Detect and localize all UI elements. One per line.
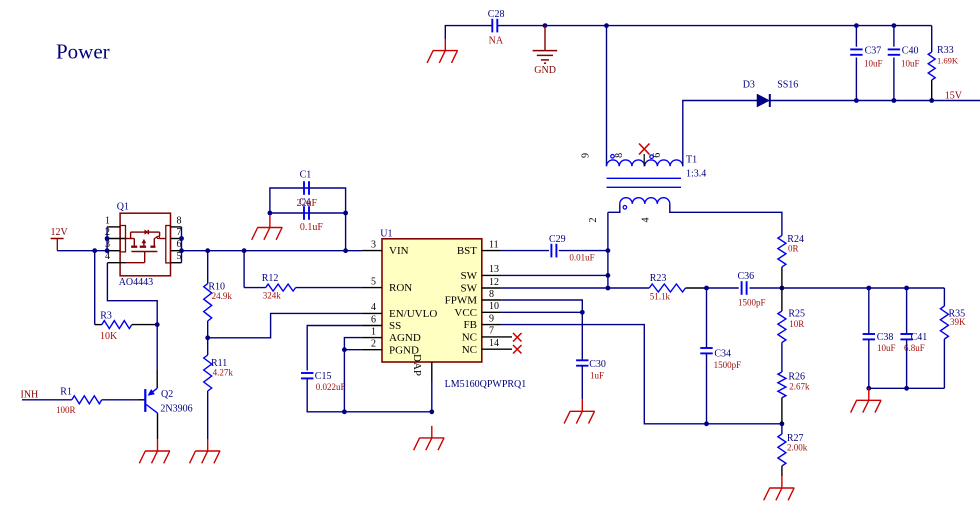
resistor R11 bbox=[204, 338, 234, 439]
resistor R26 bbox=[778, 343, 810, 424]
no-connect pin14 bbox=[513, 345, 522, 354]
wire VCC bbox=[502, 311, 583, 313]
ground DAP bbox=[414, 426, 445, 450]
wire EN net bbox=[208, 313, 362, 337]
svg-text:C1: C1 bbox=[300, 170, 312, 181]
svg-text:12V: 12V bbox=[51, 227, 69, 238]
wire C29-SWbus bbox=[559, 250, 608, 252]
node C4 right bbox=[343, 248, 348, 253]
resistor R12 bbox=[244, 273, 362, 300]
pin 1 Q1 bbox=[105, 215, 120, 227]
svg-text:R23: R23 bbox=[650, 273, 667, 284]
svg-text:10uF: 10uF bbox=[877, 343, 896, 353]
node AGND rail bbox=[342, 409, 347, 414]
node C4 right2 bbox=[343, 211, 348, 216]
svg-text:1: 1 bbox=[105, 215, 110, 226]
wire 12V rail bbox=[57, 250, 107, 252]
op-amp U1 LM5160QPWPRQ1 bbox=[362, 229, 526, 391]
capacitor C37 bbox=[850, 26, 882, 101]
capacitor C40 bbox=[888, 26, 920, 101]
wire DAP stub bbox=[431, 362, 433, 412]
svg-text:9: 9 bbox=[581, 153, 592, 158]
wire C28 left bbox=[445, 26, 492, 39]
capacitor C28 bbox=[488, 9, 505, 46]
capacitor C38 bbox=[863, 288, 896, 388]
node C40 top bbox=[892, 23, 897, 28]
svg-text:D3: D3 bbox=[743, 79, 755, 90]
resistor R35 bbox=[940, 288, 966, 388]
resistor R24 bbox=[778, 234, 804, 288]
node R3-Q2 bbox=[155, 322, 160, 327]
svg-text:R3: R3 bbox=[100, 311, 112, 322]
wire Q1 left bus bbox=[106, 227, 108, 251]
svg-text:39K: 39K bbox=[950, 317, 966, 327]
transistor Q1 bbox=[117, 202, 171, 289]
ground C30 bbox=[564, 399, 595, 423]
wire VIN rail bbox=[182, 250, 362, 252]
resistor R3 bbox=[95, 311, 158, 342]
node C34 top bbox=[704, 286, 709, 291]
node GND tap bbox=[543, 23, 548, 28]
wire Q1 right bus bbox=[181, 227, 183, 263]
wire T1 pri left bbox=[606, 26, 608, 167]
svg-text:2.00k: 2.00k bbox=[787, 442, 808, 452]
svg-text:SW: SW bbox=[461, 270, 478, 282]
svg-text:0.022uF: 0.022uF bbox=[316, 382, 346, 392]
svg-text:10uF: 10uF bbox=[864, 58, 883, 68]
resistor R23 bbox=[608, 273, 707, 301]
svg-text:100R: 100R bbox=[56, 405, 76, 415]
node SW13 bbox=[606, 273, 611, 278]
transistor Q2 bbox=[145, 325, 192, 439]
resistor R27 bbox=[778, 424, 808, 476]
wire FB net bbox=[502, 325, 782, 424]
ground Q2 bbox=[139, 439, 170, 463]
no-connect pin7 bbox=[513, 333, 522, 342]
svg-text:24.9k: 24.9k bbox=[212, 291, 233, 301]
resistor R1 bbox=[56, 386, 145, 415]
svg-text:Power: Power bbox=[56, 40, 110, 64]
svg-text:2N3906: 2N3906 bbox=[160, 403, 192, 414]
node EN node bbox=[205, 335, 210, 340]
svg-text:SS16: SS16 bbox=[777, 79, 798, 90]
wire out bottom rail bbox=[869, 387, 945, 389]
node Q1 pin7 bbox=[179, 236, 184, 241]
node C38 bottom bbox=[866, 386, 871, 391]
node R24 bottom bbox=[780, 286, 785, 291]
svg-text:1uF: 1uF bbox=[590, 371, 604, 381]
svg-text:PGND: PGND bbox=[389, 344, 419, 356]
node Q1 pin2 bbox=[105, 236, 110, 241]
wire sec right bbox=[670, 204, 782, 236]
node SW12 bbox=[606, 286, 611, 291]
svg-text:C38: C38 bbox=[877, 332, 894, 343]
pin 3 Q1 bbox=[105, 239, 120, 251]
svg-text:T1: T1 bbox=[686, 154, 697, 165]
svg-text:13: 13 bbox=[489, 264, 499, 275]
svg-text:10K: 10K bbox=[100, 331, 118, 342]
svg-text:C29: C29 bbox=[549, 234, 566, 245]
node R12 top bbox=[242, 248, 247, 253]
svg-text:DAP: DAP bbox=[411, 354, 423, 376]
wire AGND net bbox=[344, 338, 362, 412]
svg-text:11: 11 bbox=[489, 239, 499, 250]
svg-text:AGND: AGND bbox=[389, 332, 421, 344]
node C41 bottom bbox=[904, 386, 909, 391]
wire SW13 bbox=[502, 274, 608, 276]
node C37 top bbox=[854, 23, 859, 28]
svg-text:C37: C37 bbox=[865, 45, 882, 56]
svg-text:SS: SS bbox=[389, 320, 401, 332]
svg-text:51.1k: 51.1k bbox=[650, 291, 671, 301]
svg-text:2: 2 bbox=[588, 218, 599, 223]
svg-text:NC: NC bbox=[462, 332, 477, 344]
svg-text:VCC: VCC bbox=[454, 307, 477, 319]
svg-text:12: 12 bbox=[489, 277, 499, 288]
svg-text:7: 7 bbox=[489, 326, 494, 337]
wire C15 bottom bbox=[307, 378, 432, 411]
svg-text:Q2: Q2 bbox=[161, 389, 173, 400]
svg-text:6: 6 bbox=[652, 153, 663, 158]
svg-text:6: 6 bbox=[371, 314, 376, 325]
svg-text:NA: NA bbox=[489, 35, 504, 46]
capacitor C36 bbox=[707, 271, 782, 308]
svg-text:10: 10 bbox=[489, 301, 499, 312]
svg-text:8: 8 bbox=[177, 215, 182, 226]
node C41 top bbox=[904, 286, 909, 291]
svg-text:1500pF: 1500pF bbox=[738, 298, 766, 308]
svg-text:NC: NC bbox=[462, 344, 477, 356]
wire R3 riser bbox=[94, 251, 96, 325]
node C37 bottom bbox=[854, 98, 859, 103]
node SW-C29 bbox=[606, 248, 611, 253]
svg-text:8: 8 bbox=[489, 289, 494, 300]
svg-text:INH: INH bbox=[21, 389, 39, 400]
node PGND bbox=[342, 347, 347, 352]
node Q1 pin6 bbox=[179, 248, 184, 253]
wire C30 bottom bbox=[581, 366, 583, 400]
svg-text:4.27k: 4.27k bbox=[213, 368, 234, 378]
ground C1C4 bbox=[252, 216, 283, 240]
svg-text:2.67k: 2.67k bbox=[789, 381, 810, 391]
wire gate drop bbox=[107, 263, 157, 325]
svg-text:LM5160QPWPRQ1: LM5160QPWPRQ1 bbox=[445, 379, 527, 390]
svg-text:FPWM: FPWM bbox=[445, 295, 478, 307]
svg-text:C30: C30 bbox=[589, 359, 606, 370]
svg-text:3: 3 bbox=[371, 239, 376, 250]
node C40 bottom bbox=[892, 98, 897, 103]
svg-text:10R: 10R bbox=[789, 319, 804, 329]
node C4 left bbox=[268, 211, 273, 216]
node T1 pri tap bbox=[604, 23, 609, 28]
wire BST bbox=[502, 250, 549, 252]
node 12V-R3 bbox=[92, 248, 97, 253]
node R33 bottom bbox=[929, 98, 934, 103]
svg-text:C15: C15 bbox=[315, 371, 332, 382]
svg-text:R12: R12 bbox=[262, 273, 279, 284]
svg-text:BST: BST bbox=[457, 245, 477, 257]
transformer T1 bbox=[581, 153, 707, 223]
capacitor C1 bbox=[300, 170, 312, 195]
svg-text:324k: 324k bbox=[263, 290, 282, 300]
pin 6 Q1 bbox=[171, 239, 182, 251]
svg-text:U1: U1 bbox=[380, 229, 392, 240]
node R10 top bbox=[205, 248, 210, 253]
ground R27 bbox=[764, 476, 795, 500]
svg-text:FB: FB bbox=[464, 319, 477, 331]
capacitor C15 bbox=[301, 371, 345, 392]
svg-text:Q1: Q1 bbox=[117, 202, 129, 213]
wire R12 riser bbox=[243, 251, 245, 288]
svg-text:15V: 15V bbox=[945, 90, 963, 101]
node C38 top bbox=[866, 286, 871, 291]
wire T1 pri right bbox=[683, 101, 757, 167]
svg-text:AO4443: AO4443 bbox=[119, 277, 153, 288]
wire sec left bbox=[608, 204, 620, 212]
svg-text:2: 2 bbox=[371, 339, 376, 350]
svg-text:4: 4 bbox=[371, 302, 376, 313]
ground R11 bbox=[190, 439, 221, 463]
net label INH bbox=[21, 389, 39, 400]
svg-text:C41: C41 bbox=[911, 332, 928, 343]
pin 7 Q1 bbox=[171, 227, 182, 239]
wire INH bbox=[22, 399, 72, 401]
pin 2 Q1 bbox=[105, 227, 126, 239]
wire SW12 bbox=[502, 287, 608, 289]
diode D3 bbox=[743, 79, 799, 107]
svg-text:1:3.4: 1:3.4 bbox=[686, 169, 706, 180]
svg-text:C34: C34 bbox=[714, 348, 731, 359]
wire SS net bbox=[307, 326, 362, 371]
svg-text:22uF: 22uF bbox=[297, 198, 318, 209]
wire C1C4 frame bbox=[270, 188, 346, 251]
capacitor C41 bbox=[900, 288, 927, 388]
resistor R33 bbox=[928, 26, 959, 101]
resistor R25 bbox=[778, 288, 805, 343]
ground C28 left bbox=[427, 39, 458, 63]
capacitor C34 bbox=[700, 288, 741, 424]
no-connect T1 tap bbox=[639, 144, 650, 155]
svg-text:GND: GND bbox=[534, 65, 556, 76]
svg-text:9: 9 bbox=[489, 313, 494, 324]
svg-text:C36: C36 bbox=[738, 271, 755, 282]
title Power bbox=[56, 40, 110, 64]
svg-text:C28: C28 bbox=[488, 9, 505, 20]
wire VCC-C30 drop bbox=[581, 312, 583, 360]
svg-text:1.69K: 1.69K bbox=[937, 56, 959, 66]
svg-text:SW: SW bbox=[461, 283, 478, 295]
node DAP bbox=[429, 409, 434, 414]
svg-text:4: 4 bbox=[640, 218, 651, 223]
svg-text:8: 8 bbox=[614, 153, 625, 158]
svg-text:14: 14 bbox=[489, 338, 499, 349]
svg-text:5: 5 bbox=[371, 276, 376, 287]
svg-text:10uF: 10uF bbox=[901, 58, 920, 68]
svg-text:0.1uF: 0.1uF bbox=[300, 222, 324, 233]
capacitor C29 bbox=[549, 234, 595, 263]
svg-text:6.8uF: 6.8uF bbox=[904, 343, 925, 353]
svg-text:R1: R1 bbox=[60, 386, 72, 397]
net label 15V bbox=[945, 90, 963, 101]
wire top rail bbox=[497, 25, 931, 27]
pin 4 Q1 bbox=[105, 251, 126, 263]
ground C38 bbox=[851, 388, 882, 412]
svg-text:1500pF: 1500pF bbox=[714, 360, 742, 370]
pin 5 Q1 bbox=[171, 251, 182, 263]
svg-text:0R: 0R bbox=[788, 244, 799, 254]
node Q1 pin3 bbox=[105, 248, 110, 253]
svg-text:VIN: VIN bbox=[389, 245, 409, 257]
wire 15V rail bbox=[770, 100, 980, 102]
node FB-C34 bbox=[704, 421, 709, 426]
power symbol 12V bbox=[51, 227, 69, 251]
ground GND symbol bbox=[533, 26, 558, 76]
node FB-R27 bbox=[780, 421, 785, 426]
svg-text:1: 1 bbox=[371, 326, 376, 337]
capacitor C30 bbox=[576, 359, 606, 381]
svg-text:C40: C40 bbox=[902, 45, 919, 56]
wire FPWM bbox=[502, 300, 583, 312]
node VCC-C30 bbox=[580, 310, 585, 315]
wire out rail bbox=[782, 287, 945, 289]
resistor R10 bbox=[204, 251, 233, 338]
svg-text:R33: R33 bbox=[937, 45, 954, 56]
svg-text:RON: RON bbox=[389, 282, 412, 294]
wire SW bus bbox=[607, 212, 609, 288]
svg-text:R25: R25 bbox=[788, 309, 805, 320]
svg-text:EN/UVLO: EN/UVLO bbox=[389, 308, 437, 320]
pin 8 Q1 bbox=[171, 215, 182, 227]
capacitor C4 bbox=[297, 197, 324, 233]
svg-text:0.01uF: 0.01uF bbox=[569, 253, 594, 263]
